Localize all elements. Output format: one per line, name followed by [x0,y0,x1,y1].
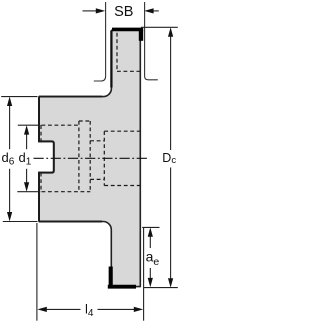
hardened zone: bottom-left bar [109,267,113,286]
hardened zone: top OD edge (thick) [112,28,143,32]
hidden cavity top (dashed) [42,124,80,126]
d6 bottom extension line [3,221,38,223]
d6 dimension line lower with arrow [9,169,11,213]
d1 bottom extension line [17,191,40,193]
hidden groove left wall (dashed) [78,121,80,192]
Dc dimension line upper with arrow [170,36,172,150]
hidden cavity wall lower (dashed) [40,173,42,192]
hidden counterbore bottom (dashed) [104,185,140,187]
ae dimension line lower with arrow [149,268,151,279]
hidden cavity bottom (dashed) [42,191,91,193]
Dc dimension line lower with arrow [170,168,172,280]
ae dimension line upper with arrow [149,236,151,248]
d1 dimension line upper with arrow [26,134,28,149]
d1 dimension line lower with arrow [26,169,28,183]
hidden groove top (dashed) [79,120,90,122]
svg-text:d1: d1 [19,150,32,167]
l4 right extension line [143,227,145,320]
hidden tooth flank (dashed) [116,33,118,72]
ae top extension line [142,226,159,228]
hidden small bore bottom (dashed) [90,178,104,180]
center line (dash-dot axis) [34,157,148,159]
d1 top extension line [18,124,41,126]
svg-text:ae: ae [146,248,160,267]
l4 left extension line [36,223,38,321]
gap silhouette left: vertical + fillet stub [94,2,106,81]
d6 top extension line [1,96,37,98]
d6 dimension line upper with arrow [9,105,11,149]
hardened zone: top-right bar [139,30,143,41]
hidden counterbore end face (dashed) [103,131,105,185]
svg-text:d6: d6 [2,150,15,167]
Dc top extension line [141,26,178,28]
SB dimension line right with arrow [154,10,159,12]
hardened zone: bottom OD edge (thick) [108,285,136,289]
hidden tooth root (dashed) [117,70,140,72]
rim left face (medium thick) [110,31,112,88]
hidden small bore top (dashed) [90,140,104,142]
svg-text:l4: l4 [85,301,94,318]
sprocket body silhouette [39,29,140,286]
svg-text:Dc: Dc [162,151,176,166]
hidden groove right wall (dashed) [89,121,91,192]
gap silhouette right: vertical + fillet stub [145,2,158,80]
hidden counterbore top (dashed) [104,130,140,132]
web top and bottom edges (overdraw) [39,97,102,222]
hidden cavity wall upper (dashed) [40,125,42,141]
SB dimension line left with arrow [83,10,97,12]
svg-text:SB: SB [114,4,133,20]
Dc bottom extension line [144,287,178,289]
l4 dimension line with arrows [46,308,81,310]
hub face and notch outline (thicker overdraw) [39,97,54,220]
